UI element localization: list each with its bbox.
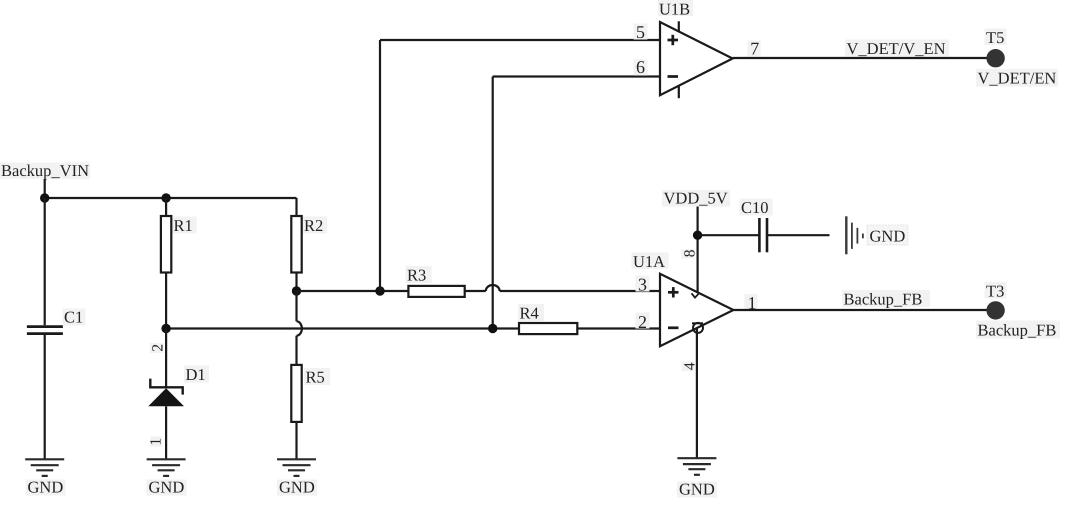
ground symbol below R5 [277,459,316,476]
svg-text:GND: GND [870,227,906,246]
ground symbol below U1A pin4 [677,458,716,475]
op-amp U1A [632,252,734,346]
power port VDD_5V [662,189,730,236]
wire R1 top [165,198,167,216]
pin number 7 of U1B [748,39,761,59]
pin number 3 of U1A [636,275,650,295]
pin number 8 of U1A (rotated) [681,249,698,259]
node junction VDD / C10 [693,231,702,240]
svg-text:VDD_5V: VDD_5V [664,189,728,208]
resistor R3 [406,265,465,297]
wire U1B pin5 horizontal [380,39,660,41]
wire top horizontal Backup_VIN rail [45,197,297,199]
svg-text:5: 5 [636,22,645,42]
node junction at R1 top [161,193,170,202]
svg-text:R5: R5 [306,367,325,386]
node junction lower rail / pin6 branch [488,324,497,333]
wire C1 bottom [44,335,46,459]
svg-text:T3: T3 [986,281,1004,300]
node junction R2 bottom / upper rail [292,286,301,295]
wire lower rail right segment [577,327,660,329]
wire U1B pin6 horizontal [493,75,660,77]
wire lower rail left segment [166,327,519,329]
svg-text:GND: GND [279,478,315,497]
wire U1A pin8 power [692,235,699,297]
wire VDD to C10 [698,234,760,236]
op-amp U1B [658,0,733,98]
wire upper rail after R3 with hop over pin6 branch [465,285,660,291]
svg-text:GND: GND [28,478,64,497]
ground label GND below C1 [26,478,66,497]
wire U1B pin6 branch vertical [492,77,494,329]
wire C10 to ground [767,234,830,236]
svg-text:C10: C10 [741,198,769,217]
wire vertical with hop over lower rail [297,291,302,365]
zener diode D1 [148,365,209,407]
svg-text:R4: R4 [520,303,539,322]
pin number 1 of U1A [745,293,758,313]
svg-text:6: 6 [636,57,645,77]
svg-text:Backup_FB: Backup_FB [978,320,1057,339]
wire U1A output [733,309,995,311]
svg-text:Backup_FB: Backup_FB [844,290,923,309]
ground label GND below U1A [677,480,717,499]
terminal label V_DET/EN [976,69,1058,88]
svg-text:C1: C1 [64,308,83,327]
svg-text:GND: GND [679,480,715,499]
resistor R5 [291,365,330,422]
svg-text:V_DET/EN: V_DET/EN [978,69,1057,88]
pin number 2 of U1A [636,312,650,332]
node junction upper rail / U1B pin5 branch [375,286,384,295]
ground label GND below R5 [277,478,317,497]
svg-text:V_DET/V_EN: V_DET/V_EN [847,39,946,58]
svg-text:2: 2 [150,344,167,352]
resistor R1 [161,216,197,273]
pin number 5 of U1B [634,22,648,42]
svg-text:R2: R2 [304,216,323,235]
wire R2 bottom to junction [295,273,297,292]
svg-text:2: 2 [638,312,647,332]
node junction at Backup_VIN stem [40,193,49,202]
svg-text:D1: D1 [186,365,206,384]
wire U1B pin5 branch vertical [379,40,381,291]
svg-text:R1: R1 [174,216,193,235]
terminal T5 [985,28,1007,68]
wire R2 top [295,198,297,216]
ground symbol below D1 [147,459,186,476]
wire R5 bottom [295,422,297,459]
net label V_DET/V_EN [845,39,949,58]
wire C1 top [44,198,46,325]
svg-text:7: 7 [750,39,759,59]
capacitor C10 [740,198,773,253]
ground label GND right of C10 [867,225,908,246]
svg-text:1: 1 [148,438,165,446]
svg-text:GND: GND [149,478,185,497]
resistor R2 [291,216,327,273]
capacitor C1 [27,308,86,334]
wire U1A pin4 power with pin glyph [692,323,703,458]
svg-text:T5: T5 [986,28,1004,47]
svg-text:U1A: U1A [633,252,665,271]
power port label Backup_VIN [0,161,90,198]
wire D1 cathode [165,329,167,388]
svg-text:3: 3 [638,275,647,295]
terminal label Backup_FB [976,320,1060,339]
svg-text:8: 8 [681,249,698,257]
net label Backup_FB [842,290,930,309]
wire R1 bottom to lower rail [165,273,167,329]
wire U1B output [733,57,996,59]
svg-text:Backup_VIN: Backup_VIN [1,161,89,180]
pin number 2 of D1 (rotated) [150,343,167,353]
wire D1 anode [165,406,167,458]
ground symbol right of C10 (rotated) [846,216,863,254]
terminal T3 [985,281,1007,319]
ground symbol below C1 [25,459,64,476]
ground label GND below D1 [147,478,187,497]
pin number 4 of U1A (rotated) [682,362,699,372]
svg-text:R3: R3 [407,265,426,284]
pin number 1 of D1 (rotated) [148,437,165,447]
resistor R4 [518,303,577,334]
pin number 6 of U1B [634,57,648,77]
node junction D1 top [161,324,170,333]
wire upper rail left segment [297,290,409,292]
svg-text:U1B: U1B [659,0,690,18]
